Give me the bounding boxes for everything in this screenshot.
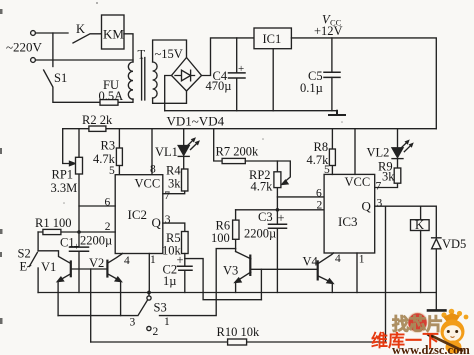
svg-text:R1 100: R1 100 (35, 216, 71, 230)
junction dot S3 common (147, 291, 151, 295)
wire secondary top to bridge top vertex (153, 40, 187, 62)
svg-text:7: 7 (164, 190, 170, 202)
wire S1 branch from top wire (52, 33, 54, 67)
svg-text:V2: V2 (89, 256, 104, 270)
svg-text:4: 4 (335, 253, 341, 265)
V2 collector to IC2 pin4 (108, 254, 123, 264)
+12V rail (63, 128, 437, 130)
ground bar at rail end (329, 111, 345, 115)
svg-text:+: + (278, 211, 285, 225)
transformer core (142, 58, 145, 101)
S3 position 2 contact (147, 326, 151, 330)
diode VD5 (432, 238, 441, 293)
V4 emitter (318, 276, 332, 293)
svg-text:V4: V4 (303, 255, 319, 269)
wire V1 collector to S2 top (38, 251, 70, 263)
ground symbol (435, 293, 437, 310)
svg-text:C1: C1 (60, 235, 75, 249)
VL2 emission arrows (400, 141, 412, 151)
svg-text:+: + (74, 242, 80, 253)
svg-text:K: K (76, 22, 85, 36)
wire IC3 pin1 to ground rail (356, 253, 358, 293)
svg-text:2: 2 (105, 221, 111, 233)
resistor R4 3k (182, 169, 188, 191)
svg-text:KM: KM (103, 27, 124, 42)
wire K bottom to ground rail (420, 231, 422, 293)
svg-text:T: T (138, 48, 146, 62)
svg-text:3k: 3k (382, 169, 395, 183)
potentiometer RP1 3.3M (78, 129, 80, 232)
resistor R6 100 (235, 210, 237, 252)
V4 collector to IC3 pin4 (318, 253, 333, 264)
capacitor C1 2200u (78, 232, 80, 293)
S3 blade (138, 300, 148, 316)
capacitor C5 0.1u (331, 38, 333, 111)
wire KM right side down to transformer (124, 34, 133, 62)
wire R1 left down to S2 (37, 232, 39, 251)
svg-text:100: 100 (211, 231, 230, 245)
KM contactor box (102, 15, 125, 49)
wire pin3 node down through C2 (184, 254, 186, 293)
red disc behind center character (408, 313, 428, 333)
svg-text:Q: Q (152, 215, 162, 230)
wire IC2 pin6 to RP1 (79, 205, 115, 207)
LED VL2 (397, 129, 399, 148)
svg-text:2200µ: 2200µ (80, 234, 112, 248)
wire IC1 right to +12V corner (291, 38, 436, 129)
svg-text:~220V: ~220V (6, 40, 43, 55)
svg-text:2200µ: 2200µ (244, 227, 276, 241)
transistor V4 base bar (317, 261, 319, 279)
node C1/pin2 junction dot (77, 230, 81, 234)
wire C2/R5 node to S3 position1 riser (185, 259, 262, 300)
svg-text:E: E (20, 260, 28, 274)
relay K box (411, 220, 430, 231)
S3 common contact (148, 294, 150, 296)
wire pin2 node: R1 to IC2 pin2 (38, 231, 115, 233)
svg-text:1: 1 (150, 254, 156, 266)
resistor R8 4.7k (331, 129, 333, 175)
RP2 wiper arrowhead (282, 180, 288, 184)
svg-text:6: 6 (105, 197, 111, 209)
mascot crown (441, 312, 446, 317)
svg-text:0.1µ: 0.1µ (300, 81, 323, 95)
svg-text:IC1: IC1 (263, 32, 282, 46)
resistor R10 10k (228, 339, 247, 345)
svg-text:IC2: IC2 (128, 207, 148, 222)
V2 emitter (108, 274, 121, 316)
R10 rail (91, 341, 386, 343)
svg-text:R2 2k: R2 2k (82, 113, 113, 127)
svg-text:8: 8 (150, 164, 156, 176)
wire IC2 pin3 Q to R5 (163, 223, 185, 231)
mascot eyes (447, 330, 450, 333)
wire bottom terminal (36, 59, 134, 61)
terminal top (31, 31, 36, 36)
wire pin3 down to R10 rail (385, 206, 387, 342)
wire secondary bottom to bridge bottom vertex (153, 91, 187, 103)
wire top terminal to switch K (36, 32, 69, 34)
svg-text:VD1~VD4: VD1~VD4 (167, 114, 225, 129)
V2 emitter arrowhead (115, 277, 121, 282)
svg-text:470µ: 470µ (206, 79, 232, 93)
switch S1 (44, 70, 100, 102)
svg-text:2: 2 (153, 326, 159, 338)
svg-text:+12V: +12V (314, 24, 343, 38)
V1 emitter (58, 274, 70, 316)
wire IC1 bottom to ground rail (272, 49, 274, 111)
wire R9 bottom to IC3 pin7 (375, 183, 398, 187)
svg-text:V1: V1 (41, 260, 56, 274)
svg-text:3: 3 (165, 214, 171, 226)
wire rail end down to RP1 wiper (63, 129, 73, 164)
svg-text:VL1: VL1 (155, 145, 178, 159)
svg-text:VCC: VCC (345, 175, 371, 189)
wire IC3 pin3 Q to relay K and VD5 (375, 206, 437, 237)
riser up to V3/V4 base wire (260, 269, 262, 299)
transformer T primary winding (128, 62, 133, 99)
resistor R2 2k on rail (89, 126, 106, 131)
IC2 box (115, 175, 163, 254)
ground rail (38, 292, 436, 294)
IC1 regulator box (254, 28, 291, 49)
wire bridge left vertex to ground rail (165, 76, 172, 111)
LED VL1 (183, 129, 185, 146)
resistor R5 10k (182, 232, 189, 254)
wire rail to IC3 pin8 (354, 129, 356, 175)
wire IC2 pin1 down to ground rail (148, 254, 150, 293)
svg-text:Q: Q (362, 199, 372, 214)
svg-text:4.7k: 4.7k (251, 179, 274, 193)
svg-text:IC3: IC3 (338, 214, 358, 229)
svg-text:RP1: RP1 (52, 168, 74, 182)
svg-text:0.5A: 0.5A (99, 89, 124, 103)
svg-text:7: 7 (376, 180, 382, 192)
svg-text:4: 4 (124, 255, 130, 267)
mascot head (441, 320, 465, 344)
svg-text:R4: R4 (166, 163, 181, 177)
terminal bottom (31, 58, 36, 63)
bridge inner diode (175, 75, 195, 77)
transistor V1 base bar (70, 262, 72, 277)
IC3 box (324, 174, 375, 253)
svg-text:+: + (177, 253, 184, 267)
svg-text:1: 1 (164, 316, 170, 328)
svg-text:3: 3 (377, 198, 383, 210)
V1 emitter arrowhead (57, 277, 63, 282)
svg-text:VCC: VCC (135, 177, 161, 191)
watermark logo (371, 309, 470, 355)
mascot pen (431, 336, 463, 352)
svg-text:5: 5 (109, 165, 115, 177)
svg-text:6: 6 (316, 188, 322, 200)
svg-text:R10 10k: R10 10k (217, 325, 260, 339)
ground rail below bridge (165, 110, 337, 112)
resistor R1 100 (43, 229, 61, 234)
V3 emitter arrowhead (235, 278, 241, 282)
svg-text:5: 5 (324, 164, 330, 176)
wire V3 base to V4 base (250, 268, 317, 270)
wire rail to IC2 pin8 (151, 129, 153, 175)
V4 emitter arrowhead (327, 279, 333, 284)
V3 collector from R6 (236, 252, 251, 259)
wire rail down to R7 (214, 129, 222, 161)
wire V1 base to V2 base (71, 268, 108, 270)
emitter sub-rail to S3 position 3 (58, 315, 137, 317)
capacitor C4 470u (236, 38, 238, 111)
resistor R7 200k (222, 158, 245, 163)
junction dot RP2/C3/pin2 (276, 208, 280, 212)
mascot body (446, 341, 462, 354)
mascot face (444, 325, 462, 341)
potentiometer RP2 4.7k (276, 161, 278, 210)
svg-text:www.dzsc.com: www.dzsc.com (392, 343, 470, 355)
wire R7 to RP2 top and wiper (245, 161, 290, 183)
mascot mouth (451, 336, 455, 339)
wire bridge right vertex up to +12V top rail (202, 38, 255, 76)
svg-text:2: 2 (317, 199, 323, 211)
svg-text:S2: S2 (18, 247, 31, 261)
svg-text:1µ: 1µ (163, 274, 176, 288)
switch K (73, 34, 102, 43)
E pointer dashes (28, 266, 31, 267)
svg-text:S1: S1 (54, 71, 67, 85)
bridge rectifier VD1~VD4 diamond (172, 58, 202, 92)
wire bases down to R10 rail (90, 269, 92, 342)
VL1 emission arrows (187, 139, 199, 149)
transistor V2 base bar (106, 261, 108, 277)
wire to relay K top (420, 206, 422, 220)
capacitor C3 2200u (276, 210, 278, 293)
transformer T secondary winding (153, 62, 158, 98)
svg-text:R3: R3 (101, 139, 116, 153)
wire IC3 pin6 (277, 196, 324, 198)
fuse FU 0.5A (100, 99, 133, 102)
svg-text:VL2: VL2 (367, 145, 390, 159)
svg-text:+: + (238, 63, 244, 75)
svg-text:1: 1 (359, 254, 365, 266)
transistor V3 base bar (249, 256, 251, 275)
svg-text:C3: C3 (258, 210, 273, 224)
svg-text:V3: V3 (223, 264, 238, 278)
svg-text:3.3M: 3.3M (51, 181, 78, 195)
svg-text:4.7k: 4.7k (93, 152, 116, 166)
svg-text:3k: 3k (168, 176, 181, 190)
svg-text:~15V: ~15V (155, 47, 183, 61)
resistor R9 3k (394, 168, 401, 183)
svg-text:3: 3 (130, 317, 136, 329)
svg-text:S3: S3 (154, 301, 167, 315)
svg-text:K: K (415, 218, 424, 232)
RP1 wiper arrowhead (70, 161, 76, 165)
wire R4 bottom to IC2 pin7 (163, 191, 185, 194)
wire pin2 node: R6 corner to IC3 pin2 (236, 209, 325, 211)
resistor R3 4.7k (118, 129, 120, 175)
S3 position 1 wire to V3 collector node (160, 249, 236, 316)
switch S2 (29, 253, 37, 267)
svg-text:R7 200k: R7 200k (216, 144, 259, 158)
V3 emitter (236, 272, 251, 293)
svg-text:VD5: VD5 (442, 237, 466, 251)
capacitor C2 1u (177, 266, 192, 270)
